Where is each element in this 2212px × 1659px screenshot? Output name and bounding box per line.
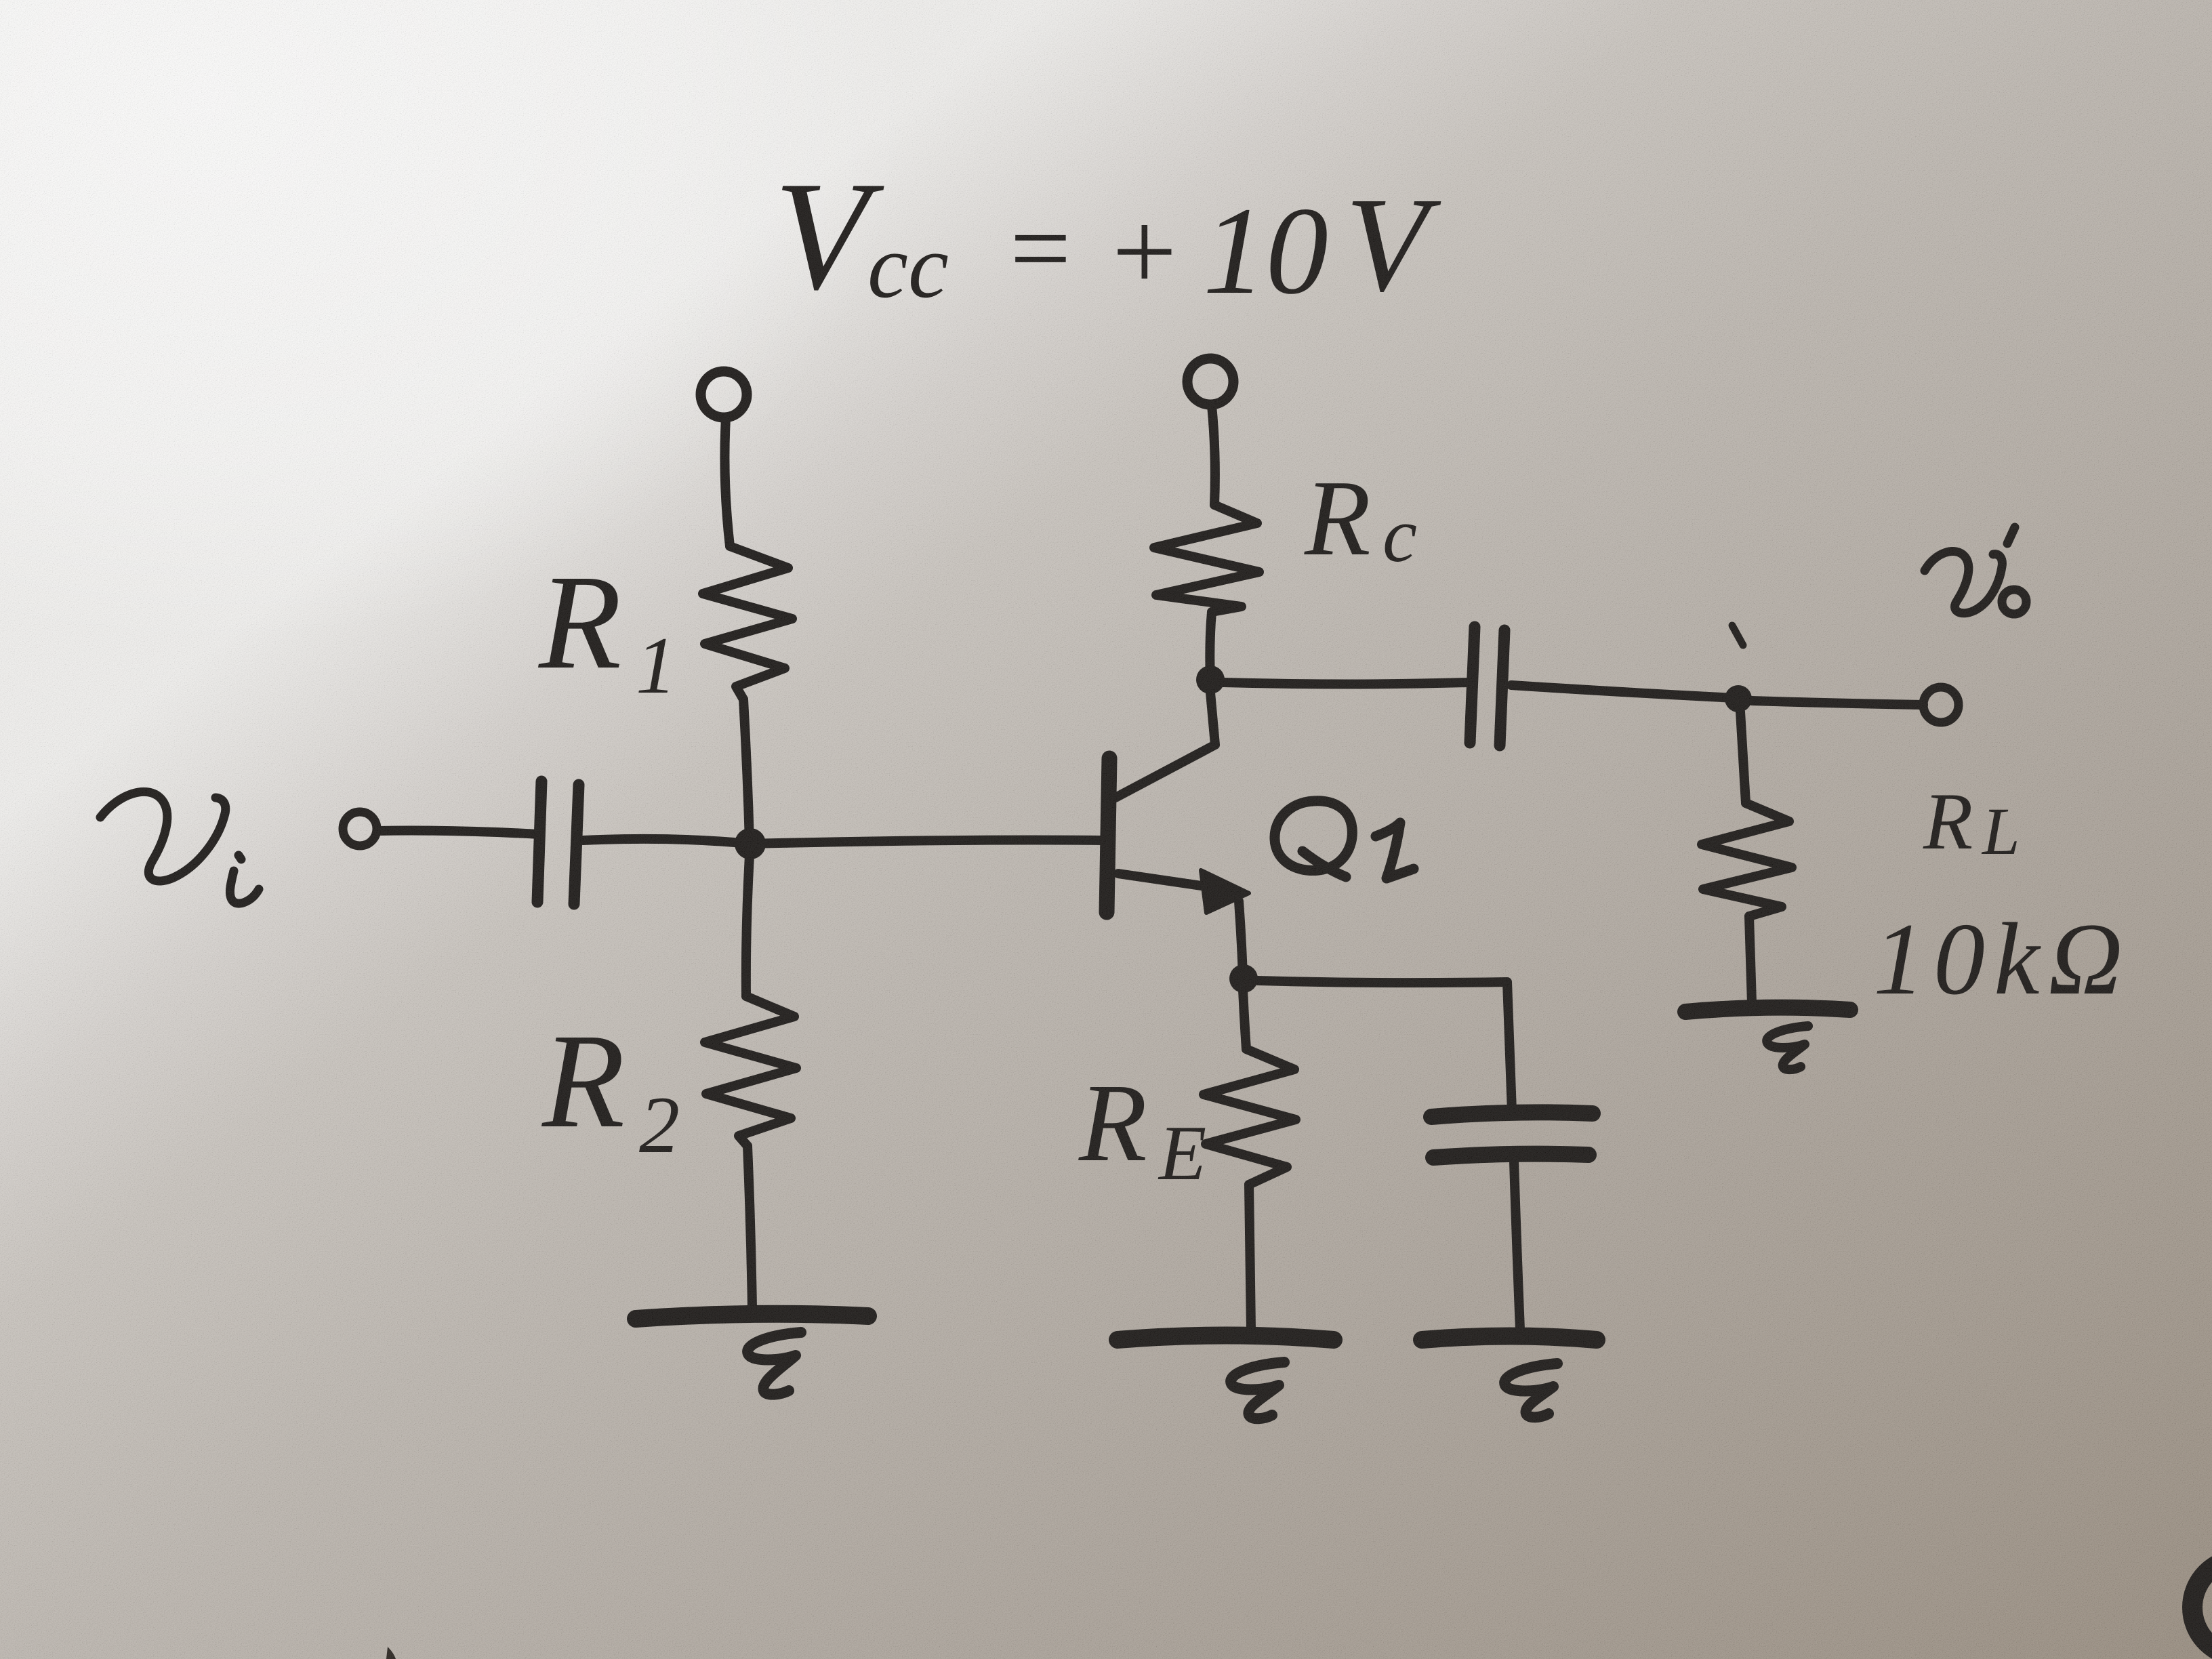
resistor RL xyxy=(1702,803,1792,916)
wire output cap to output node xyxy=(1511,685,1735,698)
node collector (junction dot) xyxy=(1196,665,1225,694)
Vcc label text xyxy=(774,149,1441,322)
resistor R2 xyxy=(705,996,796,1146)
tick mark above output node xyxy=(1732,626,1743,645)
wire collector node to output cap xyxy=(1223,682,1468,684)
terminal Vcc1 (above R1) xyxy=(701,371,747,417)
wire output node to Vo terminal xyxy=(1752,701,1923,705)
wire bypass cap to ground xyxy=(1514,1162,1520,1330)
wire Vcc1 to R1 xyxy=(724,418,730,546)
wire emitter to emitter node xyxy=(1239,901,1243,977)
terminal Vo output xyxy=(1923,687,1959,722)
label R1 xyxy=(537,548,676,710)
label R2 xyxy=(541,1006,680,1170)
ground under bypass cap xyxy=(1422,1336,1597,1340)
wire RL to ground xyxy=(1749,916,1752,1003)
wire Rc to collector node xyxy=(1210,612,1212,679)
speck at bottom edge xyxy=(386,1647,396,1659)
wire input cap to base node and to transistor base xyxy=(583,839,1103,844)
resistor R1 xyxy=(703,546,792,699)
wire base node to R2 xyxy=(746,844,750,996)
wire output node to RL xyxy=(1740,712,1746,803)
capacitor C-E top plate xyxy=(1431,1112,1593,1117)
capacitor C-out right plate xyxy=(1500,630,1504,745)
label Q1 xyxy=(1275,801,1414,878)
wire R2 to ground xyxy=(747,1146,752,1308)
transistor Q1 emitter lead xyxy=(1118,874,1220,888)
node emitter (junction dot) xyxy=(1229,964,1258,993)
terminal Vcc2 (above Rc) xyxy=(1187,359,1233,405)
resistor Rc xyxy=(1154,505,1259,612)
label RL xyxy=(1923,776,2020,869)
label 10k ohm xyxy=(1873,902,2131,1016)
transistor Q1 collector lead xyxy=(1115,693,1215,798)
ground under RE xyxy=(1118,1336,1334,1340)
resistor RE xyxy=(1204,1049,1296,1185)
capacitor C-out left plate xyxy=(1470,627,1475,743)
label Vo (script v + o) xyxy=(1925,527,2026,614)
capacitor C-in left plate xyxy=(537,781,541,902)
node output (junction dot) xyxy=(1725,685,1752,712)
terminal Vi input xyxy=(343,812,377,846)
wire Vi terminal to input cap xyxy=(377,831,539,834)
transistor Q1 emitter arrowhead xyxy=(1201,870,1249,913)
wire Vcc2 to Rc xyxy=(1212,405,1215,505)
wire emitter node to bypass cap (corner) xyxy=(1258,981,1512,1111)
capacitor C-in right plate xyxy=(574,785,579,904)
wire emitter node to RE xyxy=(1243,989,1246,1049)
label RE xyxy=(1078,1061,1206,1196)
ground under R2 xyxy=(636,1314,868,1319)
label Rc xyxy=(1304,457,1417,578)
wire RE to ground xyxy=(1249,1185,1251,1330)
label Vi (script v + i) xyxy=(100,792,259,903)
wire R1 to base node xyxy=(743,699,750,842)
decorative dark arc bottom-right corner xyxy=(2192,1559,2212,1656)
transistor Q1 base bar xyxy=(1107,758,1109,912)
node base (junction dot) xyxy=(735,828,766,859)
ground under RL xyxy=(1685,1008,1850,1012)
capacitor C-E bottom plate xyxy=(1433,1154,1589,1158)
